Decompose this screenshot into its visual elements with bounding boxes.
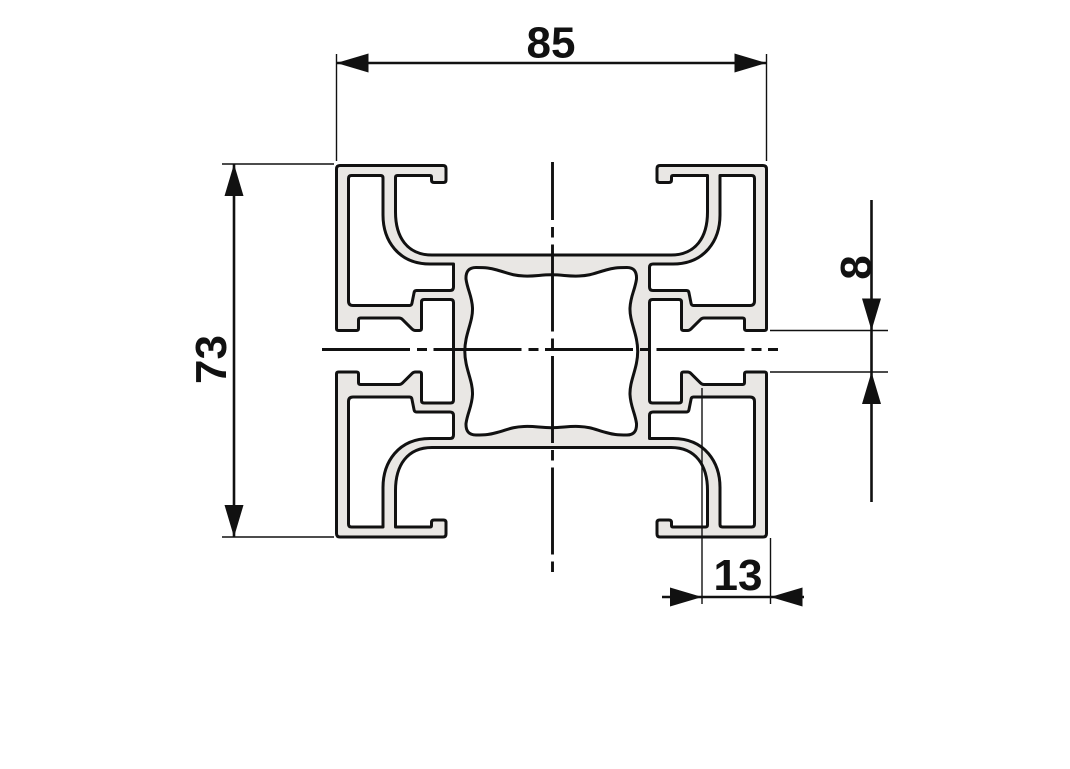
- dimension 8: arrowheads: [862, 299, 881, 331]
- aluminium extrusion profile cross-section: [337, 166, 767, 538]
- dimension 73: dimension line: [233, 164, 236, 537]
- dimension 85: extension lines: [336, 54, 338, 161]
- center line horizontal: [322, 348, 778, 351]
- svg-text:8: 8: [832, 255, 881, 279]
- svg-text:73: 73: [187, 335, 236, 384]
- dimension 73: extension lines: [222, 163, 334, 165]
- svg-text:13: 13: [714, 551, 763, 600]
- svg-text:85: 85: [527, 19, 576, 68]
- dimension 13: extension lines: [701, 388, 703, 604]
- dimension 85: arrowheads: [337, 54, 369, 73]
- dimension 85: dimension line: [337, 62, 767, 65]
- dimension 8: dimension line: [870, 200, 873, 502]
- dimension 8: extension lines: [770, 330, 888, 332]
- dimension 73: arrowheads: [225, 164, 244, 196]
- center line vertical: [551, 162, 554, 576]
- dimension 13: dimension line: [662, 596, 804, 599]
- dimension 13: arrowheads: [670, 588, 702, 607]
